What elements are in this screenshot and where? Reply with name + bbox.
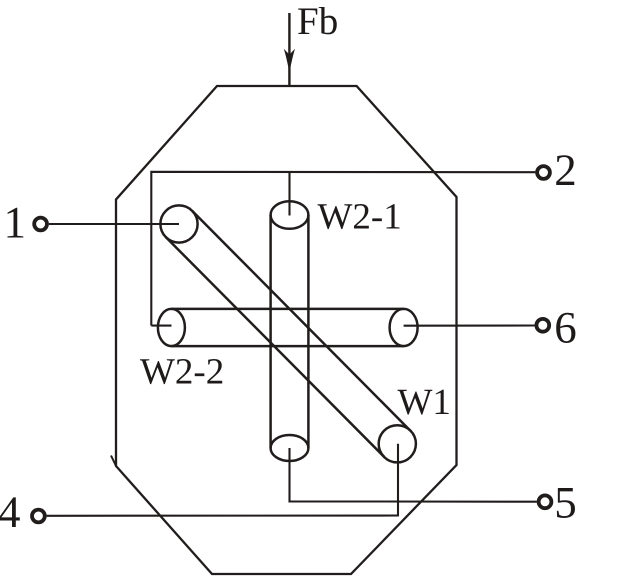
svg-text:W2-2: W2-2 [140,352,224,393]
svg-text:W2-1: W2-1 [318,197,402,238]
svg-text:W1: W1 [398,382,451,423]
svg-text:4: 4 [0,487,21,537]
svg-text:1: 1 [4,198,27,248]
svg-text:2: 2 [554,145,577,195]
svg-text:6: 6 [554,303,577,353]
svg-text:5: 5 [554,478,577,528]
svg-text:Fb: Fb [297,0,338,43]
